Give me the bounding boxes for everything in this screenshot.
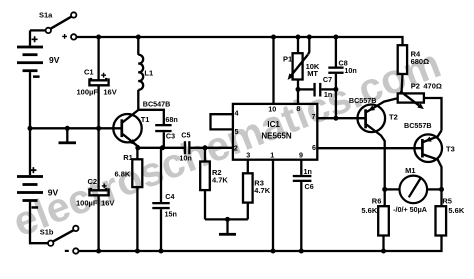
resistor R4 680 <box>398 45 429 93</box>
wire pin 8 to P1 node <box>297 89 299 104</box>
wire collector branch to C3 <box>138 110 164 124</box>
wire pin 6 to T3 base <box>317 147 422 149</box>
capacitor C4 15n <box>152 148 177 251</box>
wire R2 R3 common <box>205 218 248 220</box>
svg-text:68n: 68n <box>165 115 177 124</box>
svg-text:16V: 16V <box>103 87 116 96</box>
node M1 left <box>382 187 387 192</box>
potentiometer P1 10K MT <box>283 37 320 89</box>
node R6 bottom rail <box>381 249 386 254</box>
node C6 bottom rail <box>299 249 304 254</box>
svg-text:T1: T1 <box>141 115 150 124</box>
op-amp IC1 NE565N box <box>233 104 317 160</box>
node C7 C8 <box>333 87 338 92</box>
wire pin 1 to bottom rail <box>272 160 274 251</box>
svg-text:T3: T3 <box>446 145 455 154</box>
svg-text:15n: 15n <box>165 210 177 219</box>
capacitor C6 1n <box>293 160 314 251</box>
svg-text:C4: C4 <box>165 192 174 201</box>
svg-text:4.7K: 4.7K <box>212 175 228 184</box>
wire pin 10 to rail <box>272 37 274 104</box>
wire P1 node to C7 <box>298 88 313 90</box>
battery B2 9V <box>17 128 59 243</box>
node ground mid <box>65 126 70 131</box>
node R2 pin2 <box>203 145 208 150</box>
capacitor C5 10n <box>179 130 233 162</box>
capacitor C8 10n <box>328 37 356 118</box>
svg-text:P1: P1 <box>283 54 292 63</box>
node M1 right <box>439 187 444 192</box>
transistor T3 BC557B <box>404 121 455 189</box>
svg-text:9: 9 <box>299 150 303 159</box>
svg-text:MT: MT <box>307 69 318 78</box>
meter M1 50uA <box>385 166 442 214</box>
svg-text:S1a: S1a <box>39 10 53 19</box>
svg-text:BC557B: BC557B <box>404 121 432 130</box>
transistor T2 BC557B <box>349 96 398 206</box>
node L1 top rail <box>136 35 141 40</box>
node R1 bottom rail <box>135 249 140 254</box>
potentiometer P2 470 <box>398 82 442 131</box>
svg-text:5.6K: 5.6K <box>448 206 464 215</box>
switch S1a <box>30 10 76 39</box>
svg-text:BC547B: BC547B <box>143 99 171 108</box>
resistor R3 4.7K <box>243 160 271 220</box>
node pin7 C8 <box>333 116 338 121</box>
wire middle 0V rail <box>30 127 122 129</box>
capacitor C1 100uF 16V <box>77 37 117 128</box>
inductor L1 <box>138 37 153 110</box>
svg-text:1: 1 <box>270 150 274 159</box>
wire bottom -9V rail <box>78 236 441 252</box>
svg-text:R6: R6 <box>372 196 382 205</box>
node pin1 bottom rail <box>271 249 276 254</box>
node P1 bottom <box>296 87 301 92</box>
svg-text:R5: R5 <box>442 196 452 205</box>
node T1 emitter R1 <box>135 145 140 150</box>
svg-text:1n: 1n <box>304 167 312 176</box>
svg-text:5.6K: 5.6K <box>361 206 377 215</box>
wire top +9V rail <box>76 37 402 45</box>
svg-text:T2: T2 <box>389 112 398 121</box>
wire T1 emitter line <box>138 145 185 148</box>
transistor T1 BC547B <box>113 99 170 146</box>
resistor R2 4.7K <box>200 148 228 220</box>
svg-text:-/0/+ 50µA: -/0/+ 50µA <box>393 205 427 214</box>
svg-text:M1: M1 <box>405 166 415 175</box>
node C8 top rail <box>333 35 338 40</box>
svg-text:9V: 9V <box>49 55 60 65</box>
node R2 R3 ground <box>225 217 230 222</box>
pin 4 5 loop <box>211 114 233 129</box>
svg-text:6: 6 <box>312 143 316 152</box>
node C4 bottom rail <box>159 249 164 254</box>
resistor R6 5.6K <box>361 196 388 251</box>
node C2 bottom rail <box>96 249 101 254</box>
resistor R1 6.8K <box>115 148 143 251</box>
svg-text:L1: L1 <box>144 68 153 77</box>
ground symbol G1 <box>59 128 77 144</box>
node battery mid <box>28 126 33 131</box>
node C3 C4 <box>160 145 165 150</box>
node C1 C2 mid <box>96 126 101 131</box>
svg-text:C6: C6 <box>305 182 314 191</box>
svg-text:4.7K: 4.7K <box>254 186 270 195</box>
resistor R5 5.6K <box>436 189 465 235</box>
switch S1b <box>40 226 79 254</box>
capacitor C3 68n <box>155 115 178 148</box>
node C1 top rail <box>96 35 101 40</box>
node P1 top rail <box>296 35 301 40</box>
node P1 wiper top rail <box>307 35 312 40</box>
svg-text:100µF: 100µF <box>77 87 99 96</box>
wire pin 7 to T2 base <box>317 117 365 119</box>
capacitor C7 1n <box>313 75 336 99</box>
svg-text:C1: C1 <box>84 68 94 77</box>
ground symbol G2 <box>219 219 236 235</box>
capacitor C2 100uF 16V <box>76 128 114 251</box>
battery B1 9V <box>17 30 60 128</box>
node pin10 top rail <box>271 35 276 40</box>
